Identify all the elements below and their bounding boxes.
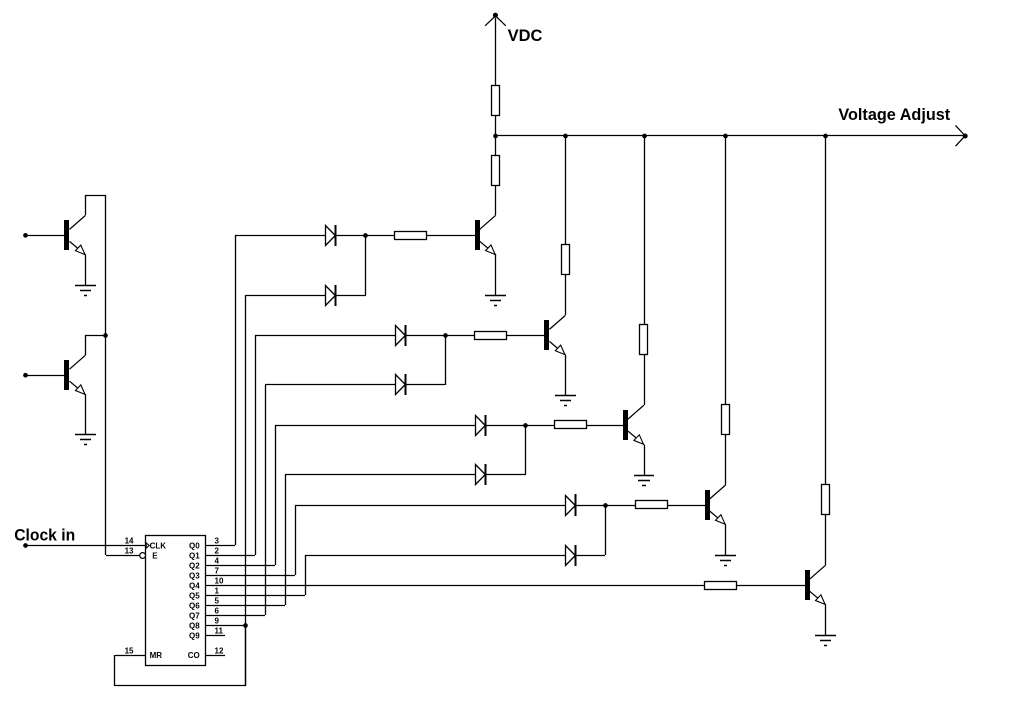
svg-text:7: 7: [215, 567, 220, 576]
svg-text:E: E: [152, 552, 158, 561]
svg-text:13: 13: [125, 547, 134, 556]
svg-text:MR: MR: [150, 651, 163, 660]
svg-text:Q8: Q8: [189, 621, 200, 630]
svg-text:Q0: Q0: [189, 541, 200, 550]
svg-text:3: 3: [215, 537, 220, 546]
svg-text:CLK: CLK: [150, 541, 167, 550]
svg-text:Q3: Q3: [189, 571, 200, 580]
svg-text:Q4: Q4: [189, 581, 200, 590]
svg-text:15: 15: [125, 646, 134, 655]
svg-text:Q1: Q1: [189, 551, 200, 560]
svg-text:2: 2: [215, 547, 220, 556]
svg-text:6: 6: [215, 607, 220, 616]
svg-text:Q6: Q6: [189, 601, 200, 610]
svg-text:Q5: Q5: [189, 591, 200, 600]
svg-text:Clock in: Clock in: [14, 526, 75, 545]
svg-text:Voltage Adjust: Voltage Adjust: [838, 106, 950, 124]
svg-text:VDC: VDC: [508, 26, 543, 45]
svg-text:9: 9: [215, 617, 220, 626]
svg-text:12: 12: [215, 646, 224, 655]
svg-text:Q9: Q9: [189, 631, 200, 640]
svg-text:10: 10: [215, 577, 224, 586]
svg-text:5: 5: [215, 597, 220, 606]
svg-text:4: 4: [215, 557, 220, 566]
svg-text:Q7: Q7: [189, 611, 200, 620]
svg-text:CO: CO: [188, 651, 200, 660]
svg-text:14: 14: [125, 537, 134, 546]
svg-text:Q2: Q2: [189, 561, 200, 570]
svg-text:1: 1: [215, 587, 220, 596]
svg-text:11: 11: [215, 627, 224, 636]
